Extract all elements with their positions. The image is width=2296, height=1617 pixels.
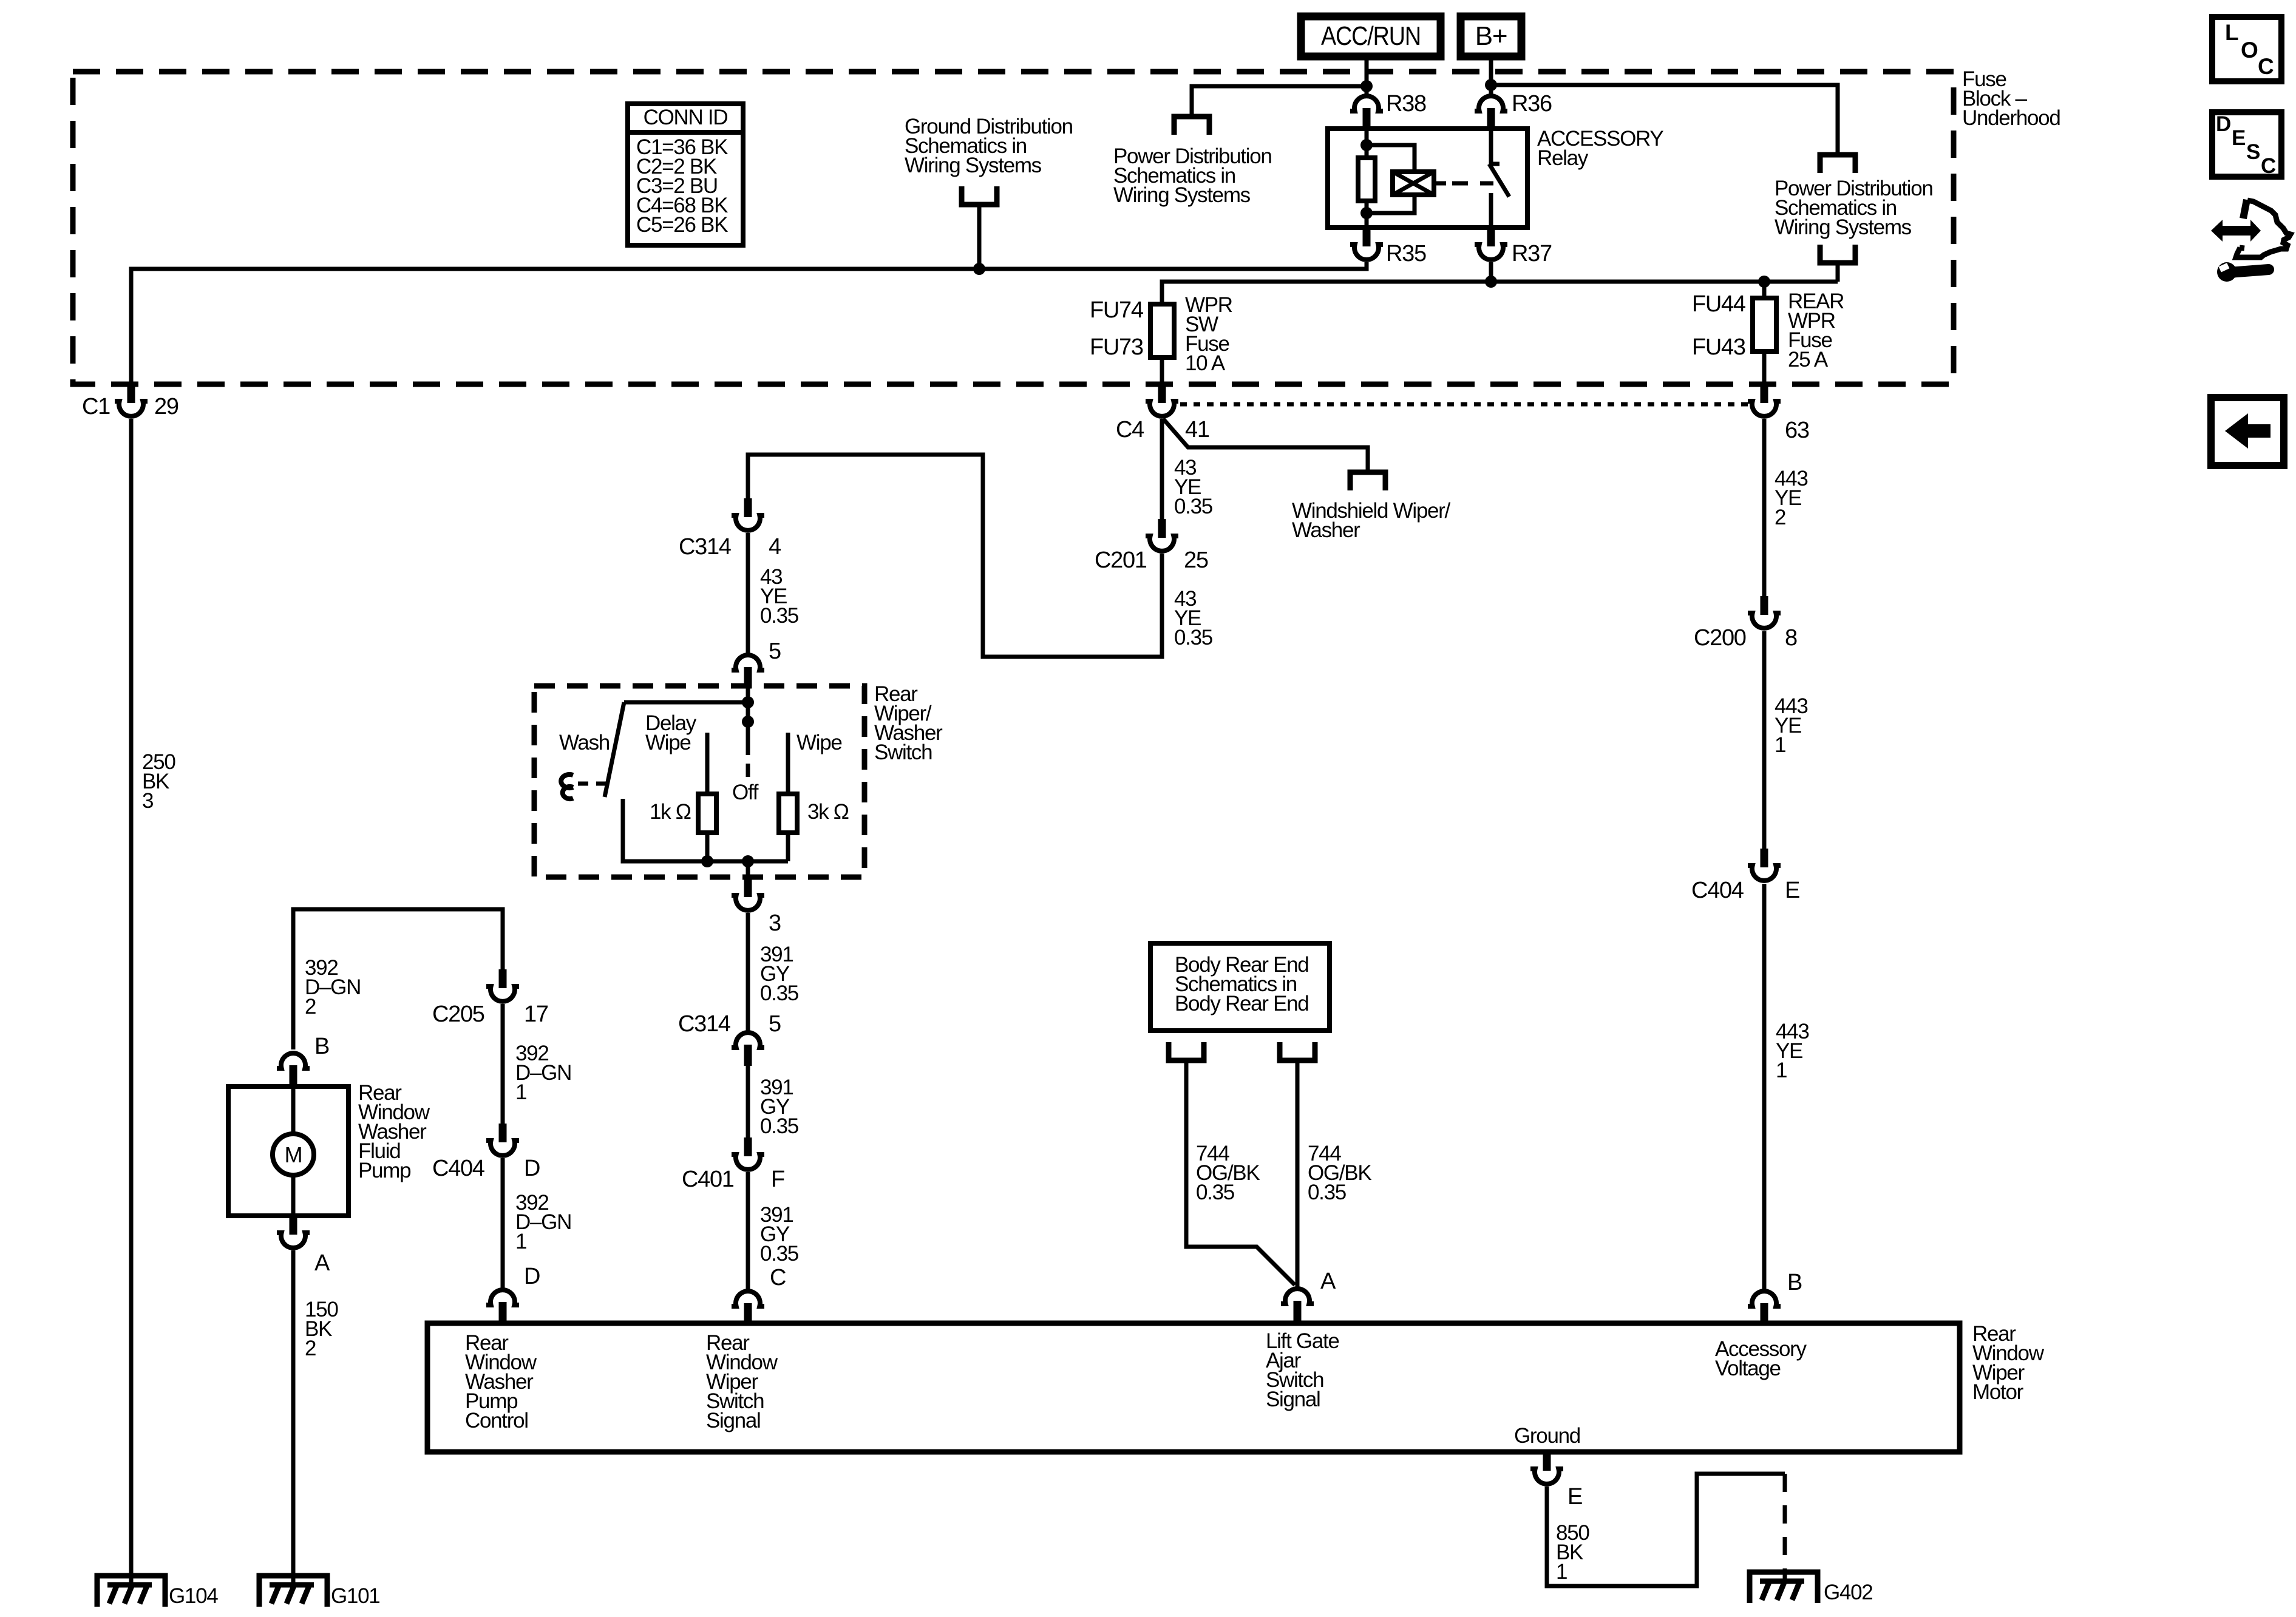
- svg-text:A: A: [314, 1250, 330, 1276]
- svg-text:1: 1: [515, 1230, 526, 1253]
- svg-text:1: 1: [1775, 733, 1785, 757]
- ground wire dashed drop: [1783, 1474, 1787, 1581]
- svg-text:FU43: FU43: [1692, 334, 1745, 360]
- Off label: [732, 781, 759, 804]
- svg-text:8: 8: [1785, 625, 1797, 651]
- C200 label: [1694, 625, 1746, 651]
- svg-text:O: O: [2241, 38, 2258, 63]
- pump control bridge: [293, 909, 503, 1049]
- FU73 label: [1090, 334, 1143, 360]
- C205 label: [432, 1002, 484, 1027]
- CONN ID table box: [628, 104, 743, 245]
- wire C205 to C404: [501, 1004, 505, 1125]
- svg-text:D: D: [2216, 112, 2230, 136]
- svg-text:M: M: [285, 1142, 302, 1167]
- FU44 label: [1692, 291, 1746, 317]
- R38 label: [1386, 91, 1426, 117]
- pump pin B connector: [277, 1053, 310, 1086]
- wire C404E to motor B: [1762, 884, 1767, 1290]
- connector C314 pin 4: [732, 498, 764, 531]
- wash contact curl: [561, 775, 573, 799]
- wire accessory bus: [1162, 282, 1838, 304]
- relay coil wire top: [1365, 129, 1369, 158]
- svg-text:Ground: Ground: [1514, 1424, 1580, 1448]
- svg-text:ACC/RUN: ACC/RUN: [1321, 21, 1421, 51]
- ground G104: [97, 1576, 165, 1607]
- C404 D label: [432, 1156, 485, 1181]
- svg-text:Body Rear End: Body Rear End: [1175, 992, 1308, 1015]
- motor pin B connector: [1748, 1291, 1781, 1324]
- B+ power feed box: [1461, 16, 1521, 56]
- ACC/RUN power feed box: [1301, 16, 1441, 56]
- wire 392 D-GN 1 label B: [515, 1191, 571, 1253]
- R36 label: [1512, 91, 1552, 117]
- svg-text:FU44: FU44: [1692, 291, 1746, 317]
- C404 E label: [1691, 878, 1744, 903]
- D label: [524, 1156, 540, 1181]
- svg-text:G101: G101: [331, 1584, 379, 1608]
- wire 392 D-GN 1 label A: [515, 1042, 571, 1104]
- motor pin text lift gate: [1266, 1329, 1339, 1411]
- 5 second label: [769, 1011, 781, 1037]
- svg-text:Wiring Systems: Wiring Systems: [1775, 215, 1912, 239]
- wire C4 to C201: [1160, 419, 1164, 521]
- switch output connector 3: [732, 878, 764, 910]
- connector C205 pin 17: [486, 969, 519, 1002]
- svg-text:4: 4: [769, 534, 781, 560]
- lift gate wire left: [1186, 1060, 1295, 1285]
- motor pin D connector: [486, 1290, 519, 1323]
- svg-text:Pump: Pump: [358, 1159, 410, 1182]
- D second label: [524, 1264, 540, 1289]
- svg-text:0.35: 0.35: [760, 1242, 798, 1266]
- ground wire 850: [1547, 1474, 1785, 1586]
- wire 43 YE 0.35 label C: [760, 565, 798, 628]
- motor pin text switch signal: [706, 1331, 778, 1432]
- relay solenoid link solid: [1434, 181, 1446, 186]
- power distribution left text: [1113, 144, 1272, 207]
- rear wiper washer switch label: [874, 682, 943, 764]
- connector 63: [1748, 384, 1781, 416]
- switch wiper contact: [742, 716, 754, 728]
- relay coil junction top: [1360, 139, 1373, 151]
- relay coil loop: [1367, 145, 1415, 172]
- motor pin text accessory voltage: [1715, 1337, 1807, 1380]
- svg-text:0.35: 0.35: [760, 1114, 798, 1138]
- wire 392 D-GN 2 label: [305, 956, 361, 1019]
- wire C1 to ground G104: [129, 419, 134, 1584]
- wire FU43 to 63: [1762, 351, 1767, 386]
- wire B+ to R36 and right branch: [1489, 60, 1493, 97]
- svg-text:2: 2: [1775, 506, 1785, 529]
- switch bottom wire: [623, 859, 788, 864]
- svg-text:0.35: 0.35: [760, 604, 798, 628]
- svg-text:G104: G104: [169, 1584, 218, 1608]
- wash dashed link: [578, 782, 607, 786]
- junction FU44 bus: [1758, 276, 1770, 288]
- svg-text:B: B: [314, 1034, 329, 1059]
- delay wipe resistor bottom wire: [705, 833, 710, 861]
- svg-text:L: L: [2225, 20, 2238, 45]
- body rear end bracket right: [1280, 1042, 1315, 1060]
- svg-text:1: 1: [1776, 1059, 1787, 1082]
- A label: [314, 1250, 330, 1276]
- DESC icon box: [2212, 112, 2281, 178]
- pump pin A connector: [277, 1216, 310, 1248]
- pump wire bottom: [291, 1175, 296, 1216]
- C401 label: [682, 1167, 734, 1192]
- relay switch common: [1489, 129, 1493, 164]
- svg-text:D: D: [524, 1156, 540, 1181]
- wire 3 to C314-5: [746, 913, 750, 1032]
- ground G101: [259, 1576, 327, 1607]
- svg-text:CONN ID: CONN ID: [644, 106, 728, 129]
- switch off dash: [746, 764, 750, 777]
- R35 label: [1386, 241, 1426, 266]
- ground G101 label: [331, 1584, 379, 1608]
- wire C401 to motor C: [746, 1172, 750, 1290]
- pump wire top: [291, 1086, 296, 1134]
- svg-text:Voltage: Voltage: [1715, 1357, 1781, 1380]
- F label: [771, 1167, 784, 1192]
- svg-text:0.35: 0.35: [1174, 626, 1212, 649]
- relay coil loop return: [1367, 195, 1415, 213]
- svg-text:C314: C314: [678, 1011, 731, 1037]
- svg-text:1: 1: [1556, 1560, 1567, 1584]
- 8 label: [1785, 625, 1797, 651]
- relay solenoid symbol: [1393, 172, 1434, 195]
- junction B+-R36: [1485, 79, 1497, 91]
- pump ground wire: [291, 1250, 296, 1584]
- svg-text:25 A: 25 A: [1788, 348, 1829, 371]
- svg-text:Wipe: Wipe: [645, 731, 691, 754]
- svg-text:Washer: Washer: [1292, 518, 1360, 542]
- svg-text:17: 17: [524, 1002, 548, 1027]
- wire 443 YE 1 label A: [1775, 694, 1808, 757]
- svg-text:C4: C4: [1116, 417, 1144, 442]
- resistor 3k: [779, 794, 797, 833]
- wire C201 to C314 detour: [748, 455, 1162, 657]
- C201 label: [1095, 547, 1147, 573]
- wire 43 YE 0.35 label A: [1174, 456, 1212, 518]
- fuse FU44/FU43 REAR WPR: [1753, 298, 1776, 351]
- ACC/RUN text: [1321, 21, 1421, 51]
- REAR WPR Fuse 25A label: [1788, 290, 1844, 371]
- wipe contact wire: [786, 733, 790, 794]
- wire 43 YE 0.35 label B: [1174, 587, 1212, 649]
- Delay Wipe label: [645, 711, 697, 754]
- relay coil wire bottom: [1365, 201, 1369, 228]
- windshield wiper text: [1292, 499, 1451, 542]
- CONN ID header: [644, 106, 728, 129]
- switch wash fixed contact: [623, 799, 748, 861]
- wire 391 GY 0.35 label A: [760, 943, 798, 1005]
- 41 label: [1185, 417, 1209, 442]
- relay pin R36 connector: [1475, 96, 1507, 129]
- 25 label: [1184, 547, 1208, 573]
- svg-text:Off: Off: [732, 781, 759, 804]
- svg-text:Underhood: Underhood: [1962, 106, 2060, 130]
- svg-text:C: C: [2258, 54, 2274, 79]
- svg-text:3: 3: [769, 910, 781, 936]
- 29 label: [154, 394, 178, 419]
- relay switch tick: [1491, 162, 1500, 166]
- CONN ID header separator: [628, 130, 743, 135]
- svg-text:E: E: [1785, 878, 1799, 903]
- svg-text:R37: R37: [1512, 241, 1552, 266]
- svg-text:0.35: 0.35: [1196, 1181, 1234, 1204]
- wire 41 branch: [1163, 419, 1368, 472]
- connector C314 pin 5: [732, 1032, 764, 1066]
- ground distribution text: [905, 115, 1073, 177]
- svg-text:41: 41: [1185, 417, 1209, 442]
- rear window wiper motor box: [427, 1323, 1960, 1452]
- svg-text:1: 1: [515, 1080, 526, 1104]
- C4 label: [1116, 417, 1144, 442]
- switch bottom junction center: [742, 855, 754, 867]
- wire R37 to bus: [1489, 262, 1493, 282]
- B+ text: [1475, 21, 1507, 51]
- Wash label: [559, 731, 610, 754]
- svg-text:D: D: [524, 1264, 540, 1289]
- relay pin R37 connector: [1475, 228, 1507, 260]
- pump motor circle M: [273, 1134, 314, 1175]
- rear wiper washer switch dashed box: [534, 686, 864, 877]
- motor pin text pump control: [465, 1331, 537, 1432]
- body rear end text: [1175, 953, 1308, 1015]
- svg-text:Control: Control: [465, 1409, 528, 1432]
- wire 744 OG/BK 0.35 label B: [1308, 1142, 1371, 1204]
- resistor 1k: [698, 794, 716, 833]
- svg-text:FU73: FU73: [1090, 334, 1143, 360]
- relay switch blade: [1489, 164, 1509, 197]
- body rear end box: [1150, 943, 1330, 1031]
- svg-text:B: B: [1787, 1270, 1802, 1295]
- lift gate wire right: [1296, 1060, 1300, 1287]
- connector C404 pin E: [1748, 849, 1781, 881]
- E ground label: [1567, 1484, 1582, 1510]
- wire B+ to right power distribution: [1491, 85, 1838, 153]
- power distribution right text: [1775, 177, 1933, 239]
- wire 250 BK 3 label: [142, 750, 175, 813]
- svg-text:E: E: [1567, 1484, 1582, 1510]
- svg-text:A: A: [1320, 1269, 1336, 1294]
- switch bottom junction 1k: [701, 855, 713, 867]
- E label: [1785, 878, 1799, 903]
- switch pin 5 connector: [732, 655, 764, 688]
- wire bus to FU44: [1762, 282, 1767, 298]
- wire 744 OG/BK 0.35 label A: [1196, 1142, 1260, 1204]
- svg-text:C205: C205: [432, 1002, 484, 1027]
- svg-text:R38: R38: [1386, 91, 1426, 117]
- motor ground pin E connector: [1530, 1452, 1563, 1484]
- svg-text:C404: C404: [1691, 878, 1744, 903]
- switch output wire: [746, 861, 750, 880]
- svg-text:25: 25: [1184, 547, 1208, 573]
- wire C404 to motor D: [501, 1158, 505, 1289]
- FU74 label: [1090, 297, 1144, 323]
- wire 391 GY 0.35 label B: [760, 1076, 798, 1138]
- wire C314-5 to C401: [746, 1064, 750, 1139]
- B second label: [1787, 1270, 1802, 1295]
- switch wash blade: [605, 702, 624, 797]
- switch input wire: [746, 686, 750, 702]
- svg-text:Relay: Relay: [1537, 146, 1589, 170]
- fuse block underhood dashed border: [73, 72, 1954, 384]
- svg-text:Switch: Switch: [874, 741, 932, 764]
- svg-text:Signal: Signal: [1266, 1388, 1320, 1411]
- svg-text:B+: B+: [1475, 21, 1507, 51]
- relay switch lower contact: [1489, 193, 1493, 228]
- connector C1 pin 29: [115, 384, 148, 416]
- junction ground distribution: [973, 263, 985, 275]
- windshield wiper bracket: [1350, 472, 1385, 490]
- wire ACC/RUN drop: [1365, 60, 1369, 86]
- svg-text:Wiring Systems: Wiring Systems: [1113, 183, 1251, 207]
- wire 150 BK 2 label: [305, 1298, 338, 1360]
- svg-text:Wipe: Wipe: [796, 731, 842, 754]
- wire 391 GY 0.35 label C: [760, 1203, 798, 1266]
- svg-text:0.35: 0.35: [760, 981, 798, 1005]
- junction ACC/RUN-R38: [1360, 80, 1373, 92]
- power distribution bracket left: [1174, 117, 1209, 135]
- connector C4 pin 41: [1146, 384, 1178, 416]
- svg-text:Motor: Motor: [1972, 1380, 2024, 1404]
- svg-text:2: 2: [305, 1337, 316, 1360]
- C label: [770, 1265, 786, 1290]
- ground distribution bracket: [962, 186, 997, 205]
- fuse FU74/FU73 WPR SW: [1150, 304, 1174, 358]
- svg-text:3k Ω: 3k Ω: [807, 800, 849, 824]
- dotted connector line C4: [1180, 402, 1748, 407]
- relay pin R38 connector: [1350, 96, 1383, 129]
- connector C401 pin F: [732, 1137, 764, 1170]
- motor pin A connector: [1281, 1289, 1314, 1322]
- FU43 label: [1692, 334, 1745, 360]
- wire 443 YE 2 label: [1775, 467, 1808, 529]
- wire ground distribution to main: [977, 205, 982, 269]
- pump text: [358, 1081, 430, 1182]
- wire C200 to C404E: [1762, 631, 1767, 850]
- power distribution bracket right: [1820, 155, 1855, 173]
- ground G402: [1750, 1572, 1818, 1603]
- wire 63 to C200: [1762, 419, 1767, 598]
- svg-text:1k Ω: 1k Ω: [650, 800, 691, 824]
- connector C201 pin 25: [1146, 519, 1178, 551]
- wire C314-4 to switch pin 5: [746, 533, 750, 653]
- wire 443 YE 1 label B: [1776, 1020, 1809, 1082]
- 17 label: [524, 1002, 548, 1027]
- C314 label: [679, 534, 732, 560]
- body rear end bracket left: [1169, 1042, 1204, 1060]
- relay pin R35 connector: [1350, 228, 1383, 260]
- accessory relay box: [1328, 129, 1527, 228]
- CONN ID rows: [636, 135, 728, 237]
- svg-text:C200: C200: [1694, 625, 1746, 651]
- svg-text:0.35: 0.35: [1174, 495, 1212, 518]
- svg-text:Wiring Systems: Wiring Systems: [905, 154, 1042, 177]
- connector C200 pin 8: [1748, 596, 1781, 628]
- svg-text:C314: C314: [679, 534, 732, 560]
- vehicle service icon: [2211, 200, 2291, 282]
- svg-text:C: C: [2261, 154, 2276, 178]
- pump motor M: [285, 1142, 302, 1167]
- switch top horizontal: [624, 700, 748, 705]
- svg-text:C1: C1: [82, 394, 110, 419]
- C1 label: [82, 394, 110, 419]
- svg-text:3: 3: [142, 789, 153, 813]
- 63 label: [1785, 418, 1809, 443]
- wire right bracket to bus: [1836, 263, 1840, 282]
- relay solenoid link dashed: [1452, 181, 1493, 186]
- relay coil resistor: [1358, 158, 1375, 201]
- svg-text:FU74: FU74: [1090, 297, 1144, 323]
- wire 850 BK 1 label: [1556, 1521, 1589, 1584]
- ground G104 label: [169, 1584, 218, 1608]
- fuse block label: [1962, 67, 2060, 130]
- svg-text:S: S: [2246, 140, 2260, 164]
- svg-text:G402: G402: [1824, 1581, 1872, 1604]
- wipe resistor bottom wire: [786, 833, 790, 861]
- svg-text:C401: C401: [682, 1167, 734, 1192]
- motor pin C connector: [732, 1291, 764, 1324]
- WPR SW Fuse 10A label: [1185, 293, 1232, 375]
- LOC icon box: [2212, 17, 2281, 81]
- svg-text:R36: R36: [1512, 91, 1552, 117]
- wire C1 main horizontal: [131, 262, 1367, 386]
- back arrow icon box: [2211, 398, 2284, 466]
- svg-text:10 A: 10 A: [1185, 351, 1226, 375]
- relay coil junction bottom: [1360, 207, 1373, 219]
- svg-text:R35: R35: [1386, 241, 1426, 266]
- svg-text:5: 5: [769, 639, 781, 664]
- svg-text:0.35: 0.35: [1308, 1181, 1346, 1204]
- svg-text:C201: C201: [1095, 547, 1147, 573]
- svg-text:C: C: [770, 1265, 786, 1290]
- connector C404 pin D: [486, 1124, 519, 1156]
- 4 label: [769, 534, 781, 560]
- switch junction top: [742, 696, 754, 708]
- delay wipe contact wire: [705, 733, 710, 794]
- B label: [314, 1034, 329, 1059]
- svg-text:Wash: Wash: [559, 731, 610, 754]
- junction R37 bus: [1485, 276, 1497, 288]
- motor pin text ground: [1514, 1424, 1580, 1448]
- switch center solid: [746, 702, 750, 755]
- svg-text:E: E: [2232, 126, 2245, 150]
- svg-text:C5=26 BK: C5=26 BK: [636, 213, 728, 237]
- C314 second label: [678, 1011, 731, 1037]
- svg-text:Signal: Signal: [706, 1409, 761, 1432]
- 5 label: [769, 639, 781, 664]
- Wipe label: [796, 731, 842, 754]
- wire ACC/RUN to R38 and left branch: [1192, 86, 1367, 117]
- 3 label: [769, 910, 781, 936]
- R37 label: [1512, 241, 1552, 266]
- rear window wiper motor label: [1972, 1322, 2045, 1404]
- ACCESSORY Relay label: [1537, 127, 1663, 170]
- svg-text:F: F: [771, 1167, 784, 1192]
- ground G402 label: [1824, 1581, 1872, 1604]
- svg-text:2: 2: [305, 995, 316, 1019]
- 3k ohm label: [807, 800, 849, 824]
- rear window washer fluid pump box: [228, 1086, 348, 1216]
- power distribution bracket right lower: [1820, 245, 1855, 263]
- wire FU73 to C4: [1160, 358, 1164, 386]
- svg-text:5: 5: [769, 1011, 781, 1037]
- 1k ohm label: [650, 800, 691, 824]
- svg-text:29: 29: [154, 394, 178, 419]
